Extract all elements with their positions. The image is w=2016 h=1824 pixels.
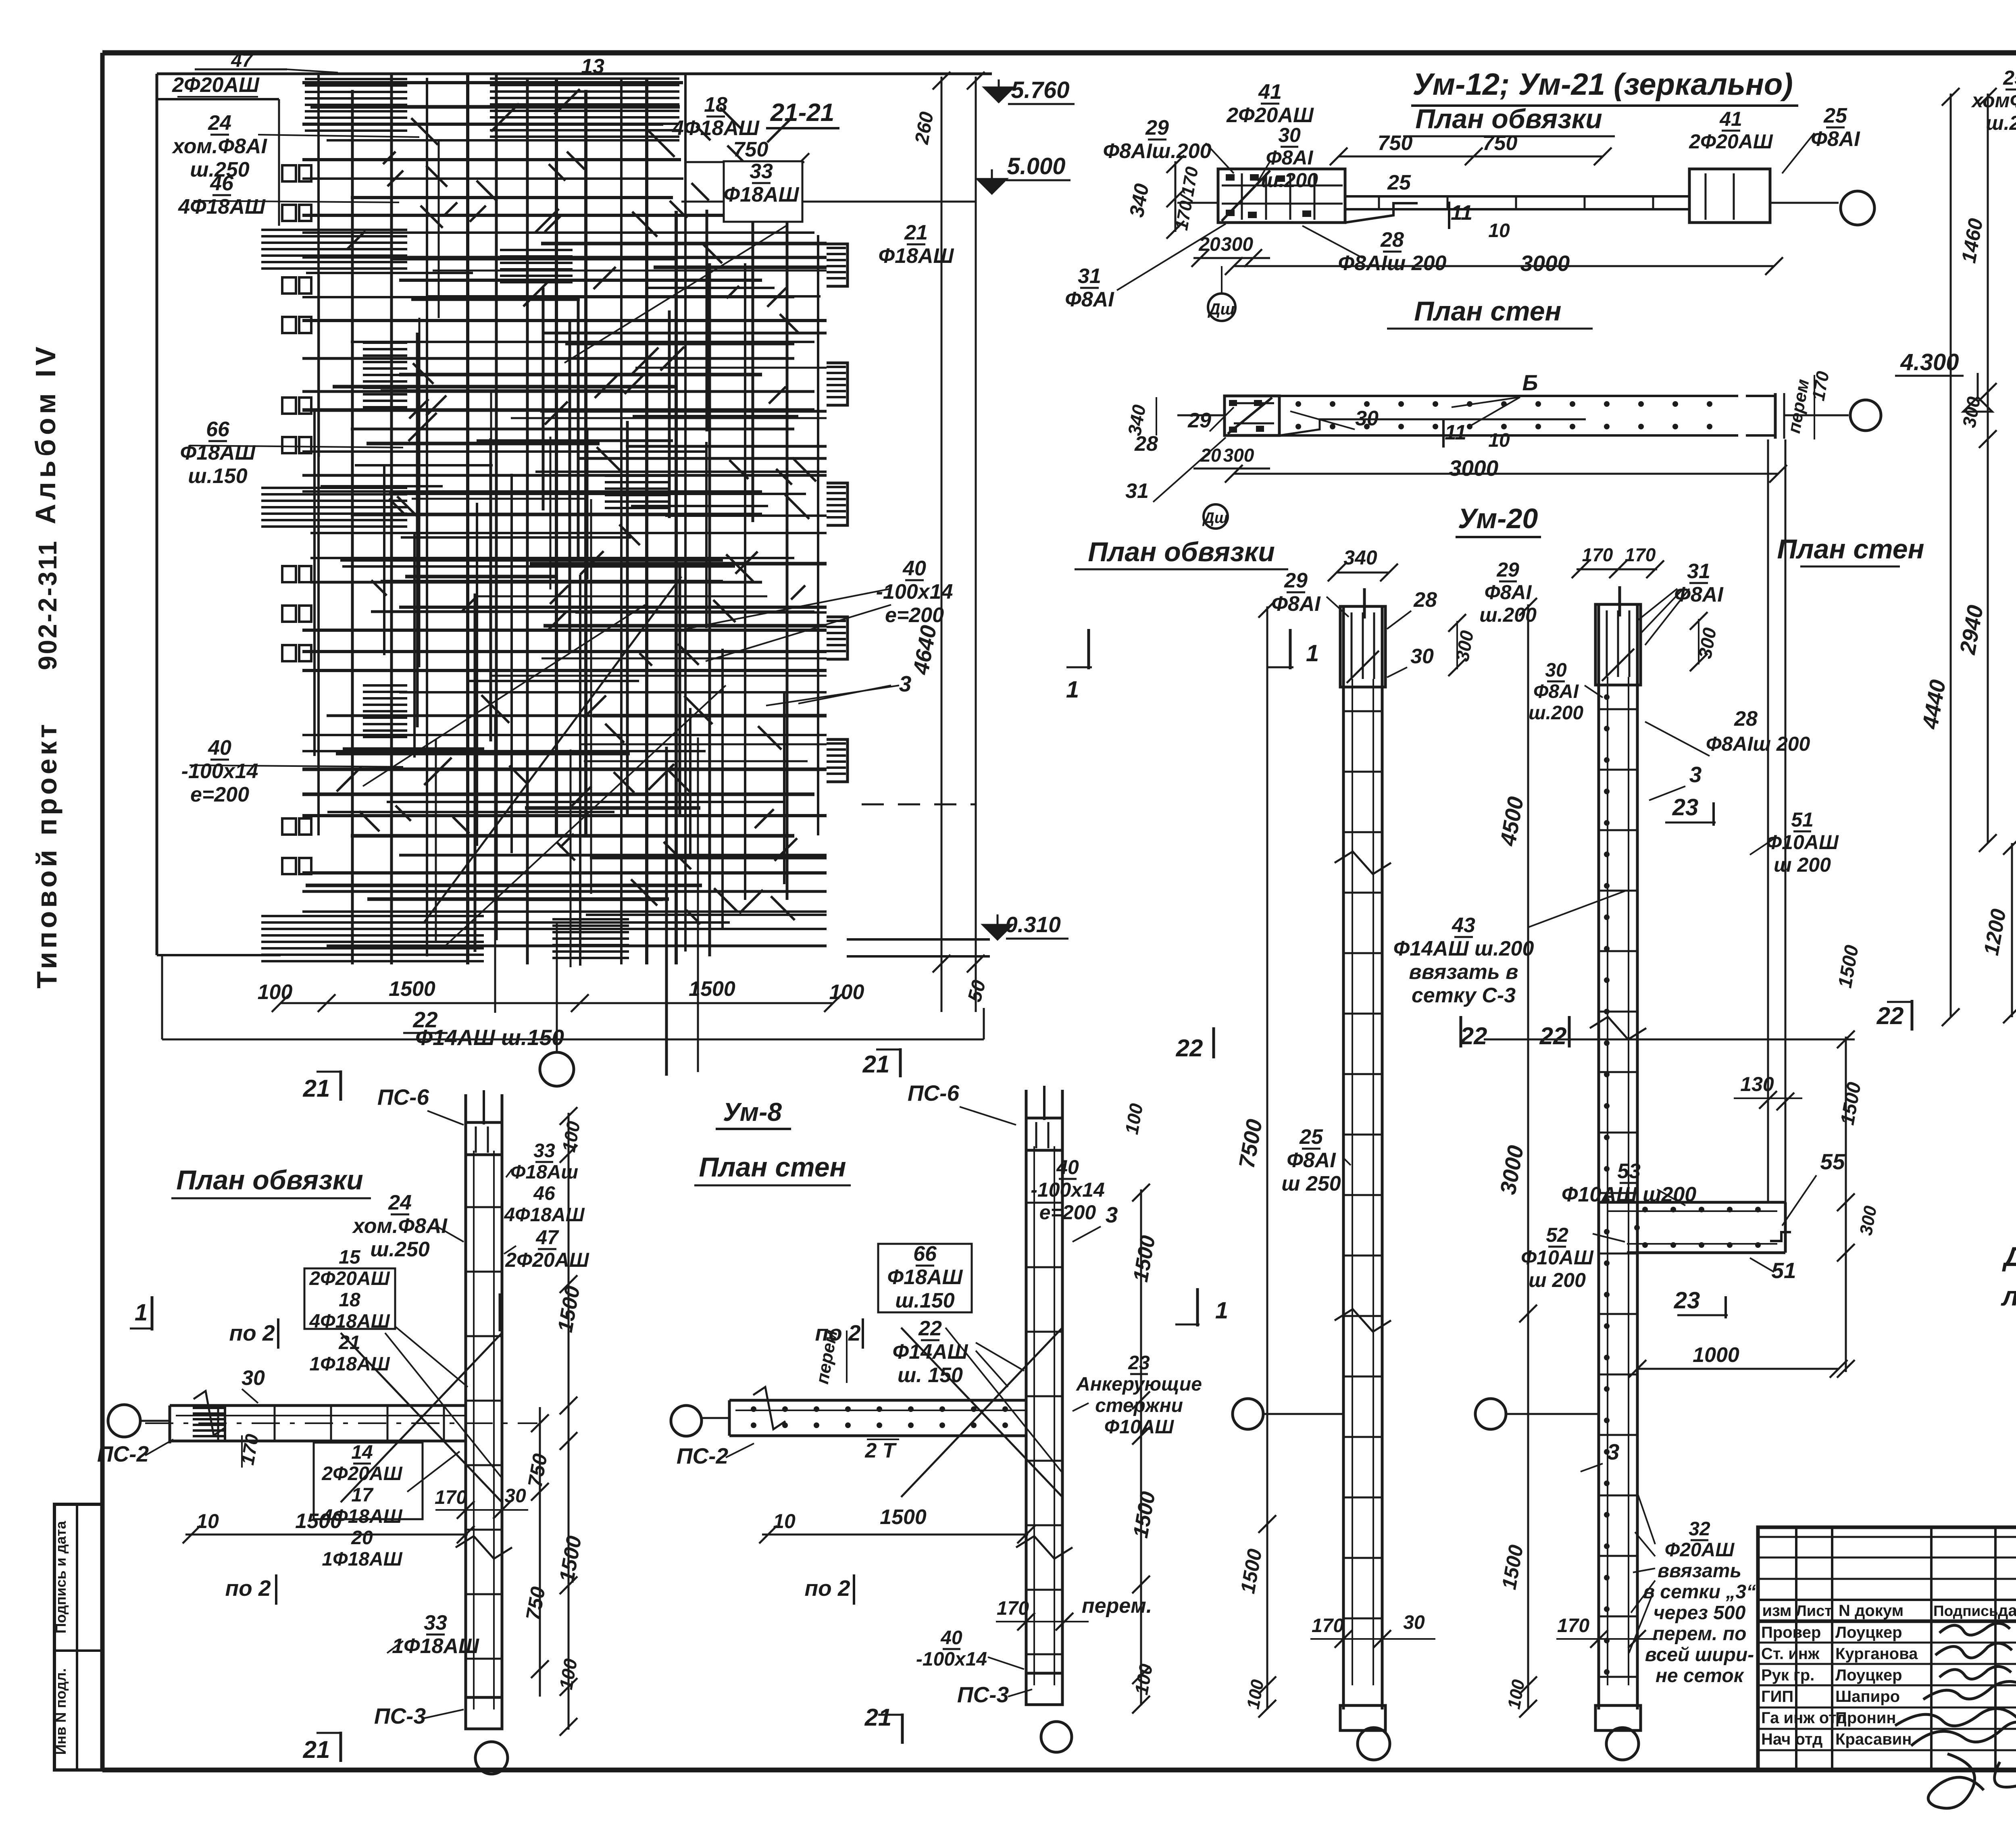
svg-text:29: 29 (1496, 558, 1519, 581)
svg-text:е=200: е=200 (1039, 1201, 1096, 1224)
svg-text:21-21: 21-21 (770, 99, 835, 127)
svg-text:30: 30 (1410, 645, 1434, 668)
svg-text:ввязать: ввязать (1658, 1560, 1741, 1582)
svg-text:902-2-311: 902-2-311 (33, 539, 62, 670)
svg-text:ш.150: ш.150 (895, 1289, 955, 1312)
svg-text:18: 18 (339, 1289, 360, 1311)
svg-text:Ф8АI: Ф8АI (1811, 127, 1860, 151)
svg-text:Шапиро: Шапиро (1835, 1688, 1900, 1705)
svg-text:ш.200: ш.200 (1261, 169, 1318, 192)
svg-text:340: 340 (1343, 546, 1377, 569)
svg-text:10: 10 (1488, 220, 1510, 242)
svg-text:2Ф20АШ: 2Ф20АШ (1226, 104, 1314, 127)
svg-text:Пронин: Пронин (1835, 1709, 1896, 1727)
svg-text:30: 30 (242, 1366, 265, 1390)
svg-text:не сеток: не сеток (1656, 1665, 1745, 1687)
svg-text:2Ф20АШ: 2Ф20АШ (309, 1268, 390, 1289)
svg-text:2Ф20АШ: 2Ф20АШ (172, 73, 260, 97)
svg-text:План обвязки: План обвязки (1415, 104, 1602, 134)
svg-text:Курганова: Курганова (1835, 1645, 1918, 1663)
svg-text:Б: Б (1522, 370, 1538, 395)
svg-text:1Ф18АШ: 1Ф18АШ (322, 1549, 402, 1570)
svg-text:30: 30 (1545, 660, 1567, 681)
svg-text:N докум: N докум (1839, 1602, 1904, 1620)
svg-text:17: 17 (351, 1485, 374, 1506)
svg-text:сетку С-3: сетку С-3 (1412, 984, 1516, 1007)
svg-text:23: 23 (1128, 1352, 1150, 1374)
svg-text:Ф14АШ ш.150: Ф14АШ ш.150 (415, 1025, 564, 1050)
svg-text:ПС-2: ПС-2 (677, 1443, 729, 1468)
svg-text:План обвязки: План обвязки (1088, 537, 1275, 567)
svg-text:Ф8АI: Ф8АI (1287, 1149, 1336, 1172)
svg-text:20: 20 (351, 1527, 373, 1549)
svg-text:1: 1 (135, 1299, 148, 1326)
svg-text:47: 47 (231, 50, 254, 71)
svg-text:Подпись: Подпись (1933, 1603, 1998, 1619)
svg-text:2Ф20АШ: 2Ф20АШ (321, 1463, 402, 1485)
svg-text:Ум-8: Ум-8 (723, 1097, 782, 1126)
svg-text:22: 22 (1460, 1022, 1487, 1049)
svg-text:1500: 1500 (389, 977, 435, 1001)
svg-text:по 2: по 2 (804, 1576, 850, 1601)
svg-text:21: 21 (864, 1704, 892, 1731)
svg-text:Ф20АШ: Ф20АШ (1665, 1539, 1735, 1561)
svg-text:750: 750 (733, 138, 768, 161)
svg-text:20: 20 (1200, 445, 1221, 466)
svg-text:План обвязки: План обвязки (176, 1165, 363, 1195)
svg-text:31: 31 (1687, 560, 1710, 583)
svg-text:18: 18 (704, 93, 727, 117)
svg-text:33: 33 (750, 160, 773, 183)
svg-text:Подпись и дата: Подпись и дата (52, 1521, 69, 1634)
svg-text:13: 13 (581, 55, 604, 78)
svg-text:41: 41 (1719, 108, 1742, 130)
svg-text:ПС-6: ПС-6 (908, 1081, 960, 1106)
svg-text:21: 21 (303, 1736, 330, 1763)
svg-text:-100x14: -100x14 (916, 1649, 987, 1670)
svg-text:ПС-6: ПС-6 (377, 1085, 429, 1110)
svg-text:300: 300 (1221, 234, 1253, 255)
svg-text:по 2: по 2 (815, 1320, 860, 1345)
svg-text:21: 21 (338, 1332, 360, 1353)
svg-text:40: 40 (940, 1627, 962, 1649)
svg-text:10: 10 (196, 1510, 219, 1532)
svg-text:дата: дата (1998, 1602, 2016, 1620)
svg-text:хом.Ф8АI: хом.Ф8АI (171, 135, 267, 158)
svg-text:по 2: по 2 (229, 1320, 275, 1345)
svg-text:100: 100 (258, 981, 293, 1004)
svg-text:43: 43 (1452, 914, 1475, 937)
svg-text:ш.250: ш.250 (1986, 112, 2016, 134)
svg-text:Дш: Дш (1202, 510, 1228, 527)
svg-text:хом.Ф8АI: хом.Ф8АI (352, 1214, 448, 1238)
svg-text:-100x14: -100x14 (1031, 1179, 1105, 1201)
svg-text:Ф8АIш 200: Ф8АIш 200 (1706, 733, 1810, 755)
svg-text:Альбом IV: Альбом IV (30, 343, 61, 525)
svg-text:22: 22 (1876, 1002, 1904, 1029)
svg-text:3000: 3000 (1449, 456, 1499, 481)
svg-text:Ф18АШ: Ф18АШ (887, 1266, 963, 1289)
svg-text:План стен: План стен (1414, 296, 1561, 327)
svg-text:1: 1 (1306, 640, 1319, 666)
svg-text:ГИП: ГИП (1761, 1688, 1793, 1705)
svg-text:перем. по: перем. по (1653, 1623, 1747, 1645)
svg-text:1500: 1500 (880, 1505, 927, 1529)
svg-text:11: 11 (1451, 201, 1472, 225)
svg-text:стержни: стержни (1095, 1395, 1183, 1416)
svg-text:3: 3 (1607, 1439, 1620, 1464)
svg-text:5.000: 5.000 (1007, 153, 1065, 179)
svg-text:Ф18АШ: Ф18АШ (879, 244, 954, 268)
svg-text:ПС-3: ПС-3 (374, 1703, 426, 1728)
svg-text:всей шири-: всей шири- (1645, 1644, 1754, 1666)
svg-text:40: 40 (1056, 1156, 1079, 1179)
svg-text:е=200: е=200 (885, 604, 944, 627)
svg-text:170: 170 (1312, 1615, 1344, 1637)
svg-text:31: 31 (1078, 264, 1101, 288)
svg-text:30: 30 (1278, 124, 1301, 146)
svg-text:через 500: через 500 (1654, 1602, 1746, 1624)
svg-text:ш.150: ш.150 (188, 464, 248, 488)
svg-text:1500: 1500 (689, 977, 735, 1001)
svg-text:Лист: Лист (1796, 1603, 1832, 1620)
svg-text:Ф8АI: Ф8АI (1065, 288, 1114, 311)
svg-text:ш.200: ш.200 (1529, 702, 1583, 724)
svg-text:66: 66 (913, 1242, 937, 1266)
svg-text:2Ф20АШ: 2Ф20АШ (505, 1249, 589, 1271)
svg-text:28: 28 (1380, 228, 1404, 252)
svg-text:1: 1 (1215, 1297, 1228, 1324)
svg-text:33: 33 (424, 1611, 447, 1635)
svg-text:Ф14АШ ш.200: Ф14АШ ш.200 (1393, 937, 1534, 960)
svg-text:47: 47 (535, 1226, 559, 1249)
svg-text:2 Т: 2 Т (864, 1439, 897, 1462)
svg-text:5.760: 5.760 (1011, 77, 1069, 103)
svg-text:22: 22 (1176, 1035, 1203, 1062)
svg-text:51: 51 (1791, 808, 1814, 831)
svg-text:ввязать в: ввязать в (1409, 960, 1518, 984)
svg-text:14: 14 (351, 1442, 373, 1463)
svg-text:21: 21 (303, 1075, 330, 1102)
svg-text:Ум-12; Ум-21 (зеркально): Ум-12; Ум-21 (зеркально) (1412, 67, 1793, 102)
svg-text:Ф10АШ: Ф10АШ (1766, 831, 1839, 854)
svg-text:-100x14: -100x14 (181, 760, 258, 783)
svg-text:Ф18АШ: Ф18АШ (180, 441, 256, 464)
svg-text:11: 11 (1445, 421, 1466, 444)
svg-text:Ф8АIш 200: Ф8АIш 200 (1338, 252, 1447, 275)
svg-text:4Ф18АШ: 4Ф18АШ (672, 117, 760, 140)
svg-text:29: 29 (1187, 409, 1211, 432)
svg-text:1500: 1500 (295, 1510, 342, 1533)
svg-text:3000: 3000 (1520, 251, 1570, 276)
svg-text:55: 55 (1820, 1149, 1845, 1174)
svg-text:Ст. инж: Ст. инж (1761, 1645, 1820, 1663)
svg-text:20: 20 (1198, 234, 1220, 255)
svg-text:Ф10АШ: Ф10АШ (1104, 1416, 1175, 1438)
svg-text:ПС-2: ПС-2 (97, 1441, 149, 1466)
svg-text:Нач отд: Нач отд (1761, 1730, 1822, 1748)
svg-text:25: 25 (1387, 171, 1411, 194)
svg-text:30: 30 (1403, 1612, 1425, 1633)
svg-text:4Ф18АШ: 4Ф18АШ (178, 195, 266, 219)
svg-text:Ф8АI: Ф8АI (1533, 681, 1579, 702)
svg-text:Красавин: Красавин (1835, 1730, 1912, 1748)
svg-text:ш 250: ш 250 (1281, 1172, 1341, 1195)
svg-text:4Ф18АШ: 4Ф18АШ (504, 1204, 585, 1226)
svg-text:30: 30 (1355, 407, 1379, 430)
svg-text:28: 28 (1734, 707, 1758, 731)
svg-text:170: 170 (997, 1598, 1029, 1619)
svg-text:2Ф20АШ: 2Ф20АШ (1689, 130, 1773, 153)
svg-text:29: 29 (1284, 569, 1308, 592)
svg-text:1Ф18АШ: 1Ф18АШ (392, 1635, 479, 1658)
svg-text:Га инж отд: Га инж отд (1761, 1709, 1847, 1727)
svg-text:Провер: Провер (1761, 1624, 1821, 1641)
svg-text:32: 32 (1689, 1518, 1710, 1540)
svg-text:25: 25 (2003, 67, 2016, 89)
svg-text:31: 31 (1125, 479, 1149, 503)
svg-text:41: 41 (1258, 80, 1282, 104)
svg-text:4Ф18АШ: 4Ф18АШ (309, 1311, 390, 1332)
svg-text:1: 1 (1066, 677, 1079, 703)
svg-text:по 2: по 2 (225, 1576, 271, 1601)
svg-text:3: 3 (1106, 1202, 1118, 1227)
svg-text:Инв N подл.: Инв N подл. (52, 1668, 69, 1755)
svg-text:Ф18АШ: Ф18АШ (724, 183, 800, 206)
svg-text:21: 21 (904, 221, 928, 244)
svg-text:Лоуцкер: Лоуцкер (1835, 1666, 1902, 1684)
svg-text:ш 200: ш 200 (1529, 1269, 1586, 1291)
svg-text:е=200: е=200 (190, 783, 249, 806)
svg-text:ш.250: ш.250 (370, 1238, 430, 1261)
svg-text:46: 46 (533, 1183, 555, 1204)
svg-text:Рук гр.: Рук гр. (1761, 1666, 1814, 1684)
svg-text:Ф8АI: Ф8АI (1674, 583, 1724, 606)
svg-text:40: 40 (902, 557, 926, 580)
svg-text:10: 10 (773, 1510, 796, 1532)
svg-text:23: 23 (1674, 1287, 1700, 1314)
svg-text:52: 52 (1546, 1224, 1568, 1246)
svg-text:24: 24 (208, 111, 231, 135)
svg-text:1000: 1000 (1693, 1343, 1739, 1367)
svg-text:План стен: План стен (699, 1152, 846, 1183)
svg-text:33: 33 (533, 1140, 555, 1162)
svg-text:300: 300 (1223, 445, 1254, 466)
svg-text:ш 200: ш 200 (1774, 854, 1831, 876)
svg-text:46: 46 (210, 172, 234, 195)
svg-text:750: 750 (1378, 131, 1413, 155)
svg-text:10: 10 (1488, 430, 1510, 451)
svg-text:План стен: План стен (1777, 534, 1924, 564)
svg-text:25: 25 (1823, 104, 1847, 127)
svg-text:Ф14АШ: Ф14АШ (893, 1340, 968, 1364)
svg-text:3: 3 (1689, 762, 1702, 787)
svg-text:170: 170 (1625, 544, 1656, 565)
svg-text:750: 750 (1483, 131, 1518, 155)
svg-text:170: 170 (435, 1487, 467, 1508)
svg-text:40: 40 (208, 736, 231, 760)
svg-text:22: 22 (1539, 1022, 1567, 1049)
svg-text:Ф10АШ: Ф10АШ (1521, 1246, 1594, 1269)
svg-text:3: 3 (899, 671, 912, 696)
svg-text:Данный лист см. совместно с: Данный лист см. совместно с (2002, 1241, 2016, 1272)
svg-text:ПС-3: ПС-3 (957, 1682, 1009, 1707)
svg-text:170: 170 (1557, 1615, 1589, 1637)
svg-text:23: 23 (1672, 794, 1699, 820)
svg-text:130: 130 (1740, 1073, 1774, 1095)
svg-text:53: 53 (1617, 1160, 1641, 1183)
svg-text:66: 66 (206, 418, 230, 441)
svg-text:22: 22 (918, 1317, 942, 1340)
svg-text:ш. 150: ш. 150 (898, 1364, 963, 1387)
svg-text:Типовой проект: Типовой проект (31, 721, 62, 989)
svg-text:изм: изм (1762, 1602, 1791, 1620)
svg-text:100: 100 (829, 981, 864, 1004)
svg-text:1Ф18АШ: 1Ф18АШ (309, 1353, 390, 1375)
svg-text:Ф8АIш.200: Ф8АIш.200 (1103, 140, 1212, 163)
svg-text:28: 28 (1413, 588, 1437, 612)
svg-text:Лоуцкер: Лоуцкер (1835, 1624, 1902, 1641)
svg-text:Ф10АШ ш200: Ф10АШ ш200 (1562, 1183, 1696, 1206)
svg-text:29: 29 (1145, 116, 1169, 140)
svg-text:листами КЖ-18 ÷23; 25-28.: листами КЖ-18 ÷23; 25-28. (2001, 1281, 2016, 1312)
svg-text:24: 24 (388, 1191, 412, 1214)
svg-text:Ф8АI: Ф8АI (1485, 581, 1532, 604)
svg-text:15: 15 (339, 1247, 361, 1268)
svg-text:Дш: Дш (1208, 300, 1235, 318)
svg-text:21: 21 (862, 1051, 890, 1078)
svg-text:51: 51 (1771, 1258, 1796, 1283)
svg-text:Ф8АI: Ф8АI (1271, 592, 1321, 616)
svg-text:Ум-20: Ум-20 (1458, 503, 1538, 534)
svg-text:Ф8АI: Ф8АI (1266, 146, 1314, 169)
svg-text:25: 25 (1299, 1125, 1323, 1149)
svg-text:Анкерующие: Анкерующие (1076, 1374, 1202, 1395)
svg-text:в сетки „3“: в сетки „3“ (1643, 1581, 1756, 1603)
